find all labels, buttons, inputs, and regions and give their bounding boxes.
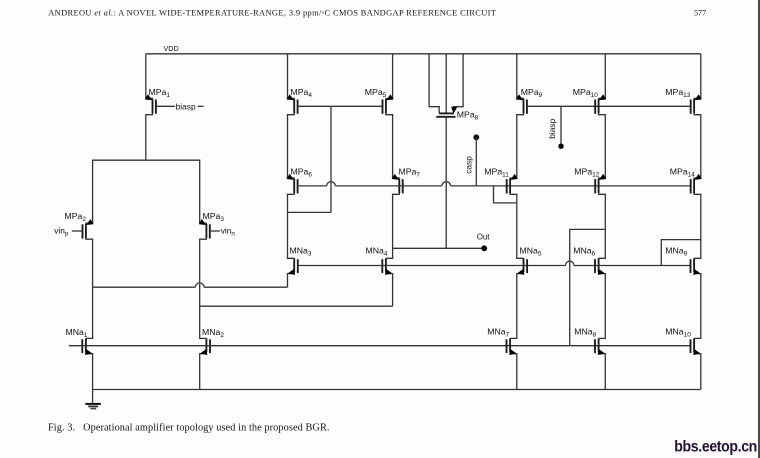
wire MPa14 drain down to MNa9 [700, 194, 702, 258]
page edge scan line [758, 0, 760, 458]
wire MNa6 source to MNa8 [604, 274, 606, 339]
wire MNa8 source to rail [604, 354, 606, 390]
transistor MPa5 [383, 94, 394, 115]
wire bottom NMOS gate bus [69, 345, 691, 347]
wire MPa11 diode loop [494, 186, 517, 203]
wire MNa4 source down to diff node [392, 274, 394, 307]
wire MPa4 source from VDD [287, 54, 289, 99]
wire diff-pair top box [93, 160, 200, 223]
transistor MNa3 [287, 258, 298, 277]
transistor MPa1 [145, 94, 156, 115]
wire MPa1 source down to diff pair box [145, 115, 147, 161]
svg-text:VDD: VDD [164, 44, 179, 53]
transistor MPa4 [287, 94, 298, 115]
transistor MNa10 [691, 338, 702, 357]
wire MNa9 source to MNa10 [700, 274, 702, 339]
wire VDD rail [146, 53, 701, 55]
ground symbol [85, 390, 101, 409]
wire MPa7 drain down to MNa4 [392, 194, 394, 258]
wire PMOS mirror gate bus row1 right [527, 105, 691, 107]
transistor MPa7 [392, 174, 403, 195]
wire MNa6 diode box to bottom gate bus [570, 229, 606, 345]
wire MNa5 source to MNa7 [516, 274, 518, 339]
svg-text:bbs.eetop.cn: bbs.eetop.cn [674, 439, 757, 456]
transistor MNa9 [691, 258, 702, 277]
transistor MNa1 [82, 338, 93, 357]
wire MPa6 drain down to MNa3 [287, 194, 289, 258]
svg-text:casp: casp [463, 156, 473, 174]
transistor MNa6 [595, 258, 606, 277]
wire MPa9 drain to MPa11 [516, 115, 518, 178]
transistor MNa7 [507, 338, 518, 357]
transistor MNa2 [199, 338, 210, 357]
wire MNa9 diode box to row3 gate bus [661, 240, 701, 266]
transistor MPa8 [429, 54, 463, 117]
wire MNa1 source to rail [92, 354, 94, 390]
wire MPa1 drain from VDD [145, 54, 147, 99]
wire MPa3 drain down to MNa2 [199, 239, 201, 338]
svg-text:Fig. 3. Operational amplifie: Fig. 3. Operational amplifier topology u… [48, 423, 330, 434]
transistor MPa12 [595, 174, 606, 195]
transistor MNa8 [595, 338, 606, 357]
svg-text:Out: Out [477, 233, 490, 242]
wire MPa9 source from VDD [516, 54, 518, 99]
transistor MPa10 [595, 94, 606, 115]
wire MNa2 source to rail [199, 354, 201, 390]
wire MPa8 gate down to Out line [445, 117, 447, 249]
wire MPa13 drain to MPa14 [700, 115, 702, 178]
wire bottom ground rail [93, 389, 701, 391]
svg-text:biasp: biasp [547, 118, 557, 138]
wire MNa3 source down to diff node [287, 274, 289, 288]
transistor MPa11 [507, 174, 518, 195]
biasp gate lead of MPa1 [156, 105, 175, 107]
node biasp (stub and dot) [560, 106, 562, 146]
wire Out [393, 247, 485, 249]
wire MPa2 drain down to MNa1 [92, 239, 94, 338]
wire MPa10 source from VDD [604, 54, 606, 99]
wire node MPa2-drain to MNa3 source (hop over MPa3 column) [93, 286, 196, 288]
wire MPa12 drain down to MNa6 [604, 194, 606, 258]
wire MPa10 drain to MPa12 [604, 115, 606, 178]
node casp (dot and stub) [473, 134, 479, 140]
wire MPa6 drain loop horizontal [288, 211, 332, 213]
wire MPa13 source from VDD (rail end) [700, 54, 702, 99]
transistor MPa9 [516, 94, 527, 115]
biasp trailing dash [198, 105, 204, 107]
wire MPa11 drain down to MNa5 [516, 194, 518, 258]
transistor MNa5 [516, 258, 527, 277]
wire NMOS cascode gate bus row3 (hop over MNa6 box wire) [298, 265, 566, 267]
transistor MPa3 [199, 219, 210, 240]
wire MPa4 drain to MPa6 [287, 115, 289, 178]
wire MNa7 source to rail [516, 354, 518, 390]
transistor MPa2 [83, 219, 94, 240]
transistor MPa14 [691, 174, 702, 195]
node Out dot [481, 245, 487, 251]
wire gate-line tap down to MPa6 drain loop [330, 106, 332, 212]
svg-text:biasp: biasp [176, 102, 196, 112]
vinp gate lead [72, 230, 83, 232]
transistor MPa6 [287, 174, 298, 195]
wire MPa5 source from VDD [392, 54, 394, 99]
svg-text:577: 577 [694, 9, 706, 18]
wire MPa5 drain to MPa7 [392, 115, 394, 178]
vinn gate lead [210, 230, 220, 232]
watermark bbs.eetop.cn [674, 439, 757, 456]
transistor MNa4 [382, 258, 393, 277]
wire MNa10 source to rail [700, 354, 702, 390]
wire MPa4-MPa5 gate line [298, 105, 383, 107]
transistor MPa13 [691, 94, 702, 115]
wire node MPa3-drain to MNa4 source [200, 305, 393, 307]
svg-text:ANDREOU et al.: A NOVEL WIDE-T: ANDREOU et al.: A NOVEL WIDE-TEMPERATURE… [48, 9, 496, 18]
wire cascode gate bus row2 (hops over loop tap and MPa8 gate wire) [298, 185, 327, 187]
